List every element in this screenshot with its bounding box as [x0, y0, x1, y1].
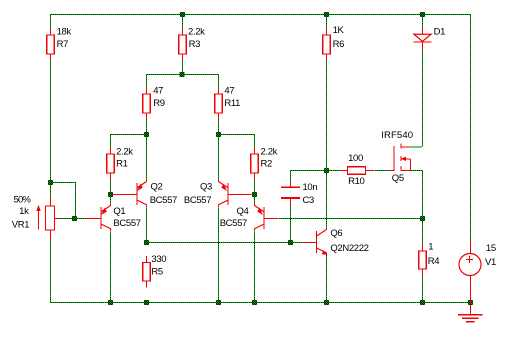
wire Q5 source down to feedback node	[422, 170, 424, 218]
wire R10 to Q5 gate	[374, 170, 389, 172]
svg-text:R9: R9	[153, 98, 165, 109]
wire R2 bottom	[254, 180, 256, 195]
junction Q5 source / R4 / Q4 base	[420, 216, 425, 221]
wire D1 top stub	[422, 14, 424, 28]
wire R2 top	[254, 134, 256, 148]
junction top rail / R6	[324, 12, 329, 17]
svg-text:BC557: BC557	[220, 218, 247, 229]
junction left rail / VR1 tap	[48, 180, 53, 185]
svg-text:R2: R2	[261, 158, 273, 169]
junction rail Q6	[324, 300, 329, 305]
wire C3 top stub	[290, 170, 292, 181]
wire R9 top	[146, 74, 148, 88]
wire Q6 emitter to rail	[326, 255, 328, 302]
wire feedback node to Q4 base	[279, 218, 423, 220]
svg-text:1: 1	[428, 242, 433, 253]
svg-text:47: 47	[224, 85, 234, 96]
svg-text:1k: 1k	[19, 206, 29, 217]
wire R3 top stub	[182, 14, 184, 29]
junction VR1 wiper	[72, 216, 77, 221]
mosfet Q5	[389, 144, 410, 172]
wire VR1 bottom to ground rail	[50, 240, 52, 302]
resistor R6	[323, 29, 331, 61]
transistor Q1	[86, 203, 111, 231]
wire VR1 top tap horizontal	[50, 182, 75, 184]
wire R4 bottom to rail	[422, 276, 424, 303]
wire R6 top stub	[326, 14, 328, 29]
wire R6 bottom to Q6 collector	[326, 61, 328, 229]
svg-text:BC557: BC557	[150, 195, 177, 206]
wire Q4 emitter up	[254, 194, 256, 203]
transistor Q6	[303, 227, 328, 255]
wire Q5 source bend	[410, 170, 422, 172]
resistor R4	[419, 245, 427, 276]
junction rail V1 / ground	[468, 300, 473, 305]
wire VR1 tap vertical	[75, 182, 77, 218]
transistor Q4	[255, 203, 279, 231]
wire Q2 collector to C3 node	[146, 242, 290, 244]
wire R3 bottom stub	[182, 61, 184, 75]
svg-text:2.2k: 2.2k	[188, 26, 205, 37]
wire R11 bottom	[218, 120, 220, 135]
svg-text:R6: R6	[333, 39, 345, 50]
svg-text:R10: R10	[348, 176, 364, 187]
wire Q5 drain to D1 column	[410, 146, 422, 148]
resistor R5	[143, 256, 151, 288]
svg-text:R4: R4	[428, 256, 440, 267]
junction rail Q4	[252, 300, 257, 305]
resistor R1	[107, 148, 115, 180]
junction R2 bottom / Q3 base	[252, 192, 257, 197]
resistor R10	[340, 167, 375, 175]
junction R6 / R10 / C3 node	[324, 168, 329, 173]
wire feedback node to R4	[422, 218, 424, 245]
svg-text:Q3: Q3	[200, 181, 212, 192]
svg-text:R11: R11	[224, 98, 240, 109]
svg-text:100: 100	[348, 153, 363, 164]
svg-text:Q5: Q5	[392, 173, 404, 184]
wire R9 bottom	[146, 120, 148, 135]
svg-text:V1: V1	[485, 257, 496, 268]
svg-text:IRF540: IRF540	[381, 130, 413, 141]
svg-text:Q2N2222: Q2N2222	[330, 243, 368, 254]
svg-text:330: 330	[151, 254, 166, 265]
resistor R2	[251, 148, 259, 180]
wire Q2 collector down	[146, 207, 148, 242]
svg-text:15: 15	[486, 243, 496, 254]
wire Q4 collector to rail	[254, 232, 256, 303]
wire R11 top	[218, 74, 220, 88]
wire D1 cathode to Q5 drain	[422, 50, 424, 147]
ground	[458, 302, 483, 322]
svg-text:BC557: BC557	[113, 218, 140, 229]
junction rail R4	[420, 300, 425, 305]
svg-text:18k: 18k	[57, 26, 72, 37]
wire Q3 emitter up	[218, 134, 220, 179]
junction top rail / D1	[420, 12, 425, 17]
svg-text:Q6: Q6	[330, 228, 342, 239]
voltage source V1	[459, 241, 481, 302]
wire R1 top	[110, 134, 112, 148]
junction R3 bottom	[180, 72, 185, 77]
svg-text:Q1: Q1	[113, 206, 125, 217]
resistor R9	[143, 88, 151, 120]
wire bottom ground rail	[50, 302, 470, 304]
transistor Q3	[219, 179, 252, 207]
svg-text:VR1: VR1	[12, 220, 29, 231]
wire Q3 collector to rail	[218, 207, 220, 302]
wire R9 R11 top header	[146, 74, 218, 76]
svg-text:1K: 1K	[333, 25, 345, 36]
wire VR1 wiper to Q1 base	[61, 218, 87, 220]
resistor R7	[47, 29, 55, 61]
svg-text:R5: R5	[151, 267, 163, 278]
potentiometer VR1	[36, 197, 60, 241]
junction C3 bottom / Q6 base	[288, 240, 293, 245]
svg-text:Q4: Q4	[237, 206, 249, 217]
wire C3 bottom to Q6 base node	[290, 206, 292, 243]
wire Q1 emitter up	[110, 194, 112, 203]
svg-text:R1: R1	[116, 158, 128, 169]
junction rail R5	[144, 300, 149, 305]
wire compensation node horizontal	[290, 170, 340, 172]
junction Q2 collector / R5	[144, 240, 149, 245]
junction rail Q3	[216, 300, 221, 305]
svg-text:2.2k: 2.2k	[261, 147, 278, 158]
resistor R11	[215, 88, 223, 120]
junction R9 bottom	[144, 132, 149, 137]
junction R11 bottom	[216, 132, 221, 137]
svg-text:R7: R7	[57, 39, 69, 50]
wire left rail upper	[50, 14, 52, 197]
svg-text:C3: C3	[303, 195, 315, 206]
svg-text:D1: D1	[434, 26, 446, 37]
svg-text:R3: R3	[189, 39, 201, 50]
wire Q2 emitter up	[146, 134, 148, 179]
svg-text:47: 47	[153, 85, 163, 96]
resistor R3	[179, 29, 187, 61]
junction top rail / R3	[180, 12, 185, 17]
wire R1 bottom	[110, 180, 112, 195]
junction rail Q1	[108, 300, 113, 305]
wire Q1 collector to rail	[110, 232, 112, 303]
svg-text:50%: 50%	[14, 194, 32, 205]
capacitor C3	[281, 181, 300, 206]
wire top supply rail	[50, 14, 470, 16]
svg-text:BC557: BC557	[184, 195, 211, 206]
transistor Q2	[112, 179, 146, 207]
wire node R11-R2 horizontal	[218, 134, 254, 136]
wire node R9-R1 horizontal	[110, 134, 146, 136]
diode D1	[414, 28, 432, 50]
wire right rail	[470, 14, 472, 241]
svg-text:2.2k: 2.2k	[116, 147, 133, 158]
svg-text:10n: 10n	[303, 182, 318, 193]
svg-text:Q2: Q2	[151, 181, 163, 192]
wire C3 node to Q6 base	[290, 242, 305, 244]
junction R1 bottom / Q2 base	[108, 192, 113, 197]
